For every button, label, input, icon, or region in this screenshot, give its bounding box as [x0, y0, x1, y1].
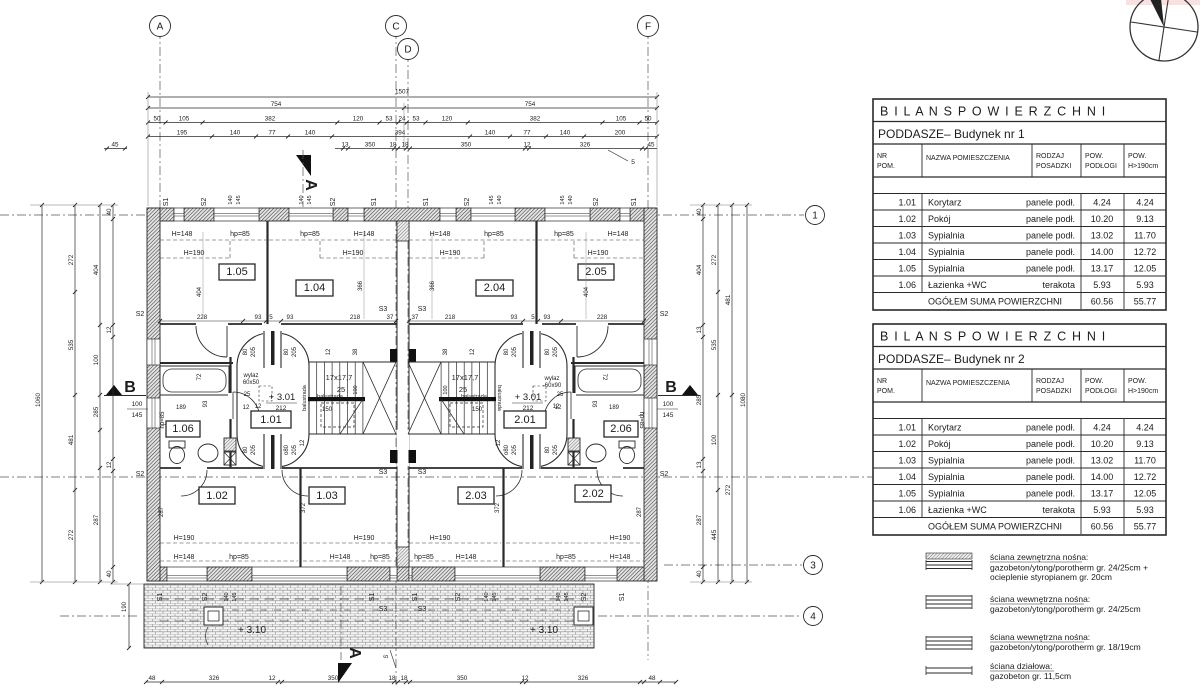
dimension row 45 stub left [104, 148, 127, 150]
svg-text:100: 100 [93, 354, 100, 365]
svg-text:285: 285 [696, 394, 703, 405]
svg-text:150: 150 [472, 407, 483, 413]
svg-text:140: 140 [224, 592, 230, 601]
table row 1.02 [873, 451, 1166, 453]
svg-text:18: 18 [400, 675, 408, 682]
right dim chain 481 [731, 205, 733, 582]
svg-text:gazobeton/ytong/porotherm gr.: gazobeton/ytong/porotherm gr. 18/19cm [990, 642, 1141, 652]
svg-text:5.93: 5.93 [1093, 280, 1111, 290]
svg-text:PODŁOGI: PODŁOGI [1085, 163, 1117, 170]
svg-text:A: A [346, 647, 363, 659]
svg-text:535: 535 [711, 339, 718, 350]
svg-text:2.06: 2.06 [610, 423, 631, 435]
svg-text:1.05: 1.05 [898, 489, 916, 499]
svg-text:panele podł.: panele podł. [1026, 472, 1075, 482]
scan artifact [1126, 0, 1200, 5]
window W9 bottom left [167, 567, 207, 581]
svg-text:100: 100 [663, 401, 674, 408]
svg-text:H>190cm: H>190cm [1128, 163, 1158, 170]
svg-text:H=148: H=148 [456, 554, 477, 561]
outer wall left band [147, 208, 160, 581]
outer wall right band [644, 208, 657, 581]
svg-text:13.02: 13.02 [1091, 231, 1114, 241]
svg-text:H=148: H=148 [330, 554, 351, 561]
svg-text:hp=85: hp=85 [414, 554, 434, 561]
svg-text:H=148: H=148 [172, 231, 193, 238]
duct shaft 2.06 [568, 438, 580, 451]
svg-text:105: 105 [179, 115, 190, 122]
attic line H190 room 2.02 [506, 542, 644, 544]
svg-text:10.20: 10.20 [1091, 439, 1114, 449]
outer wall top band [147, 208, 174, 221]
svg-text:140: 140 [560, 129, 571, 136]
attic line H190 room 2.03 [409, 542, 501, 544]
svg-text:80: 80 [284, 348, 290, 355]
window W12 bottom right patio [455, 567, 540, 581]
interior dim row y318 right [409, 320, 644, 322]
svg-text:48: 48 [648, 675, 656, 682]
svg-text:S2: S2 [581, 593, 588, 602]
room 1.01 label [251, 411, 291, 428]
svg-text:NR: NR [877, 378, 887, 385]
svg-text:NAZWA POMIESZCZENIA: NAZWA POMIESZCZENIA [926, 155, 1010, 162]
svg-text:481: 481 [68, 434, 75, 445]
svg-text:1.05: 1.05 [898, 264, 916, 274]
svg-text:hp=85: hp=85 [554, 231, 574, 238]
svg-text:NAZWA POMIESZCZENIA: NAZWA POMIESZCZENIA [926, 380, 1010, 387]
svg-text:80: 80 [243, 348, 249, 355]
table row 1.02 [873, 226, 1166, 228]
right dim chain 272-535 [717, 205, 719, 582]
room 2.03 label [458, 487, 494, 504]
svg-text:18: 18 [401, 141, 409, 148]
grid line 4 [60, 615, 140, 617]
attic line H148 room 1.04 [269, 239, 396, 241]
attic line H190 room 1.05 [160, 257, 230, 259]
svg-text:190: 190 [122, 601, 128, 612]
svg-text:150: 150 [322, 407, 333, 413]
svg-text:12: 12 [300, 439, 306, 446]
svg-text:2.01: 2.01 [514, 414, 535, 426]
svg-text:80: 80 [545, 446, 551, 453]
svg-text:POW.: POW. [1128, 153, 1146, 160]
svg-text:12: 12 [243, 405, 250, 411]
window W11 right wall [644, 339, 657, 365]
svg-text:balustrada: balustrada [461, 394, 488, 400]
svg-text:S1: S1 [619, 593, 626, 602]
svg-text:S3: S3 [379, 606, 388, 613]
svg-text:350: 350 [328, 675, 339, 682]
svg-text:RODZAJ: RODZAJ [1036, 153, 1064, 160]
bathroom 1.06 inner door arc [233, 392, 260, 419]
svg-text:ściana działowa:: ściana działowa: [990, 661, 1052, 671]
svg-text:72: 72 [197, 373, 203, 380]
svg-text:hp=85: hp=85 [230, 231, 250, 238]
terrace post right [574, 607, 593, 625]
svg-text:Łazienka +WC: Łazienka +WC [928, 280, 987, 290]
svg-text:37: 37 [387, 314, 394, 321]
terrace door arc left [206, 627, 208, 645]
svg-text:1.06: 1.06 [172, 423, 193, 435]
table row 1.01 [873, 434, 1166, 436]
svg-text:panele podł.: panele podł. [1026, 231, 1075, 241]
svg-text:100: 100 [132, 401, 143, 408]
svg-text:1.06: 1.06 [898, 505, 916, 515]
svg-text:Łazienka +WC: Łazienka +WC [928, 505, 987, 515]
table row 1.06 [873, 517, 1166, 519]
svg-text:145: 145 [132, 412, 143, 419]
svg-text:Pokój: Pokój [928, 214, 951, 224]
grid line 2 axis [0, 476, 872, 478]
svg-text:140: 140 [484, 592, 490, 601]
table row 1.01 [873, 209, 1166, 211]
svg-text:Korytarz: Korytarz [928, 423, 962, 433]
corridor 1.01 bottom door slot [263, 465, 282, 470]
grid bubble C [386, 16, 407, 37]
washbasin 1.06 [198, 444, 218, 462]
svg-text:1.06: 1.06 [898, 280, 916, 290]
svg-text:1.04: 1.04 [898, 472, 916, 482]
window W5 top right [440, 208, 456, 221]
left dim chain 1060 [41, 205, 43, 582]
svg-text:145: 145 [489, 195, 495, 204]
svg-text:1.02: 1.02 [206, 490, 227, 502]
svg-text:gazobeton/ytong/porotherm gr.: gazobeton/ytong/porotherm gr. 24/25cm + [990, 563, 1148, 573]
svg-text:53: 53 [412, 115, 420, 122]
svg-text:12: 12 [255, 404, 262, 410]
svg-text:ściana wewnętrzna nośna:: ściana wewnętrzna nośna: [990, 594, 1090, 604]
svg-text:13: 13 [696, 326, 703, 334]
stairs right hatch box dashed [450, 403, 483, 427]
dimension row 45-350 [335, 148, 657, 150]
svg-text:12: 12 [268, 675, 276, 682]
svg-text:754: 754 [525, 101, 536, 108]
svg-text:60.56: 60.56 [1091, 522, 1114, 532]
table row 1.04 [873, 484, 1166, 486]
attic line H190 room 2.05 [574, 257, 644, 259]
room 2.06 label [604, 421, 638, 437]
stairs right rail bar [439, 397, 496, 401]
toilet 2.06 [620, 447, 635, 464]
svg-text:S1: S1 [157, 593, 164, 602]
svg-text:4: 4 [810, 611, 816, 622]
svg-text:1.01: 1.01 [260, 414, 281, 426]
svg-text:terakota: terakota [1042, 280, 1075, 290]
svg-text:+ 3.01: + 3.01 [515, 392, 542, 403]
svg-text:Korytarz: Korytarz [928, 198, 962, 208]
svg-text:205: 205 [251, 444, 257, 455]
left dim chain 272-481-272 [74, 205, 76, 582]
attic line H190 room 1.03 [303, 542, 396, 544]
svg-text:Sypialnia: Sypialnia [928, 489, 965, 499]
svg-text:382: 382 [265, 115, 276, 122]
svg-text:S3: S3 [379, 306, 388, 313]
interior wall lower horizontal left [160, 467, 181, 469]
wall between rooms 2.04 and 2.05 [535, 221, 537, 324]
duct shaft 1.06 [224, 438, 236, 451]
wall between rooms 1.05 and 1.04 [266, 221, 268, 324]
svg-text:H=190: H=190 [354, 535, 375, 542]
bottom dimension row [146, 681, 676, 683]
svg-text:5: 5 [631, 159, 635, 166]
attic line H148 room 2.03 [409, 560, 501, 562]
svg-text:145: 145 [560, 195, 566, 204]
svg-text:1.04: 1.04 [898, 247, 916, 257]
room 1.05 label [219, 264, 255, 280]
table subtitle row [873, 143, 1166, 145]
svg-text:hp=85: hp=85 [300, 231, 320, 238]
svg-text:S2: S2 [593, 198, 600, 207]
svg-text:228: 228 [597, 314, 608, 321]
room 1.03 label [309, 487, 345, 504]
svg-text:60.56: 60.56 [1091, 297, 1114, 307]
svg-text:POSADZKI: POSADZKI [1036, 388, 1071, 395]
svg-text:S2: S2 [464, 198, 471, 207]
svg-text:S2: S2 [660, 471, 669, 478]
svg-text:S3: S3 [418, 306, 427, 313]
svg-text:terakota: terakota [1042, 505, 1075, 515]
window W13 bottom right [585, 567, 617, 581]
svg-text:12: 12 [555, 405, 562, 411]
wall between rooms 1.02 and 1.03 [299, 468, 301, 567]
svg-text:+ 3.10: + 3.10 [530, 625, 559, 636]
svg-text:S2: S2 [202, 593, 209, 602]
extension lines top [147, 92, 149, 206]
svg-text:gazobeton/ytong/porotherm gr.: gazobeton/ytong/porotherm gr. 24/25cm [990, 604, 1141, 614]
svg-text:H>190cm: H>190cm [1128, 388, 1158, 395]
svg-text:+ 3.10: + 3.10 [238, 625, 267, 636]
svg-text:Sypialnia: Sypialnia [928, 264, 965, 274]
table header row [873, 401, 1166, 403]
table row 1.03 [873, 242, 1166, 244]
table BILANS POWIERZCHNI building 2 [873, 324, 1166, 535]
svg-text:326: 326 [209, 675, 220, 682]
terrace dim 190 [128, 584, 130, 648]
svg-text:POM.: POM. [877, 388, 895, 395]
svg-text:12.72: 12.72 [1134, 247, 1157, 257]
svg-text:535: 535 [68, 339, 75, 350]
svg-text:140: 140 [485, 129, 496, 136]
svg-text:272: 272 [68, 529, 75, 540]
svg-text:93: 93 [203, 400, 209, 407]
svg-text:25: 25 [557, 392, 564, 398]
svg-text:25: 25 [337, 385, 345, 394]
svg-text:145: 145 [564, 592, 570, 601]
svg-text:PODDASZE– Budynek nr 1: PODDASZE– Budynek nr 1 [878, 127, 1025, 141]
svg-text:A: A [302, 179, 319, 191]
window W11 bottom center [390, 567, 397, 581]
svg-text:13.17: 13.17 [1091, 489, 1114, 499]
svg-text:hp=85: hp=85 [229, 554, 249, 561]
svg-text:72: 72 [601, 374, 607, 381]
svg-text:1.03: 1.03 [898, 231, 916, 241]
window W1 top left [174, 208, 184, 221]
svg-text:OGÓŁEM SUMA POWIERZCHNI: OGÓŁEM SUMA POWIERZCHNI [928, 522, 1062, 532]
svg-text:1080: 1080 [740, 393, 747, 408]
bathroom 2.06 door arc [577, 326, 608, 357]
left dim chain 40-12 [112, 205, 114, 582]
svg-text:18: 18 [389, 141, 397, 148]
svg-text:140: 140 [305, 129, 316, 136]
svg-text:S3: S3 [418, 606, 427, 613]
svg-text:4.24: 4.24 [1136, 198, 1154, 208]
svg-text:754: 754 [271, 101, 282, 108]
svg-text:S3: S3 [418, 469, 427, 476]
right dim chain 1080 [746, 205, 748, 582]
svg-text:205: 205 [292, 346, 298, 357]
svg-text:50: 50 [153, 115, 161, 122]
svg-text:285: 285 [93, 406, 100, 417]
svg-text:panele podł.: panele podł. [1026, 264, 1075, 274]
terrace outline [144, 584, 594, 648]
svg-text:404: 404 [93, 264, 100, 275]
svg-text:9.13: 9.13 [1136, 214, 1154, 224]
svg-text:17x17,7: 17x17,7 [326, 373, 353, 382]
svg-text:10.20: 10.20 [1091, 214, 1114, 224]
svg-text:55.77: 55.77 [1134, 297, 1157, 307]
table subtitle row [873, 368, 1166, 370]
table gap band [873, 193, 1166, 195]
svg-text:382: 382 [530, 115, 541, 122]
svg-text:POW.: POW. [1085, 378, 1103, 385]
dimension row 1507 [148, 96, 657, 98]
svg-text:H=190: H=190 [588, 250, 609, 257]
svg-text:272: 272 [711, 254, 718, 265]
svg-text:37: 37 [412, 314, 419, 321]
svg-text:120: 120 [353, 115, 364, 122]
svg-text:93: 93 [544, 314, 551, 321]
room 2.01 label [504, 411, 546, 428]
svg-text:4.24: 4.24 [1093, 423, 1111, 433]
svg-text:140: 140 [230, 129, 241, 136]
svg-text:ocieplenie styropianem gr. 20c: ocieplenie styropianem gr. 20cm [990, 572, 1112, 582]
svg-text:1060: 1060 [35, 393, 42, 408]
bathroom 2.06 inner door arc [544, 392, 571, 419]
svg-text:POM.: POM. [877, 163, 895, 170]
svg-text:hp=85: hp=85 [370, 554, 390, 561]
svg-text:80: 80 [243, 446, 249, 453]
svg-text:OGÓŁEM SUMA POWIERZCHNI: OGÓŁEM SUMA POWIERZCHNI [928, 297, 1062, 307]
svg-text:404: 404 [696, 264, 703, 275]
svg-text:25: 25 [459, 385, 467, 394]
legend item exterior wall [926, 553, 972, 559]
attic line H148 room 1.05 [160, 239, 266, 241]
window W8 top right [620, 208, 630, 221]
svg-text:Sypialnia: Sypialnia [928, 247, 965, 257]
room 1.04 label [296, 280, 333, 296]
svg-text:366: 366 [430, 280, 436, 291]
svg-text:hp=85: hp=85 [484, 231, 504, 238]
section marker A bottom [338, 663, 352, 683]
window W2 top left [214, 208, 259, 221]
svg-text:1.01: 1.01 [898, 423, 916, 433]
svg-text:12: 12 [106, 326, 113, 334]
svg-text:5.93: 5.93 [1093, 505, 1111, 515]
svg-text:+ 3.01: + 3.01 [269, 392, 296, 403]
stairs left rail bar [308, 397, 365, 401]
svg-text:145: 145 [236, 195, 242, 204]
svg-text:25: 25 [244, 392, 251, 398]
svg-text:S1: S1 [631, 198, 638, 207]
svg-text:38: 38 [353, 348, 359, 355]
svg-text:4.24: 4.24 [1093, 198, 1111, 208]
table gap band [873, 418, 1166, 420]
svg-text:wylaz: wylaz [242, 373, 258, 379]
svg-text:350: 350 [365, 141, 376, 148]
svg-text:S2: S2 [136, 311, 145, 318]
svg-text:S1: S1 [369, 593, 376, 602]
svg-text:1.03: 1.03 [316, 490, 337, 502]
svg-text:12: 12 [521, 675, 529, 682]
window W12 right wall [644, 398, 657, 428]
svg-text:38: 38 [443, 348, 449, 355]
svg-text:S1: S1 [371, 198, 378, 207]
svg-text:H=190: H=190 [610, 535, 631, 542]
svg-text:wylaz: wylaz [543, 376, 559, 382]
svg-text:panele podł.: panele podł. [1026, 247, 1075, 257]
window W6 top right [471, 208, 515, 221]
svg-text:195: 195 [177, 129, 188, 136]
attic line H148 room 1.02 [160, 560, 298, 562]
bathroom 1.06 top wall [160, 362, 233, 364]
svg-text:1.01: 1.01 [898, 198, 916, 208]
window W10 bottom left patio [252, 567, 347, 581]
svg-text:404: 404 [584, 286, 590, 297]
svg-text:9.13: 9.13 [1136, 439, 1154, 449]
corridor 2.01 outline [495, 333, 567, 467]
svg-text:4.24: 4.24 [1136, 423, 1154, 433]
door arc room 2.03 [496, 470, 522, 496]
center wall pier blocks [390, 349, 398, 362]
room 1.06 label [166, 421, 200, 437]
interior wall mid horizontal left [160, 323, 196, 325]
svg-text:Sypialnia: Sypialnia [928, 456, 965, 466]
svg-text:100: 100 [711, 434, 718, 445]
svg-text:NR: NR [877, 153, 887, 160]
door arc room 1.03 [282, 470, 308, 496]
svg-text:12: 12 [470, 348, 476, 355]
bathroom 2.06 wall [572, 357, 574, 468]
attic line H190 room 1.04 [320, 257, 396, 259]
svg-text:17x17,7: 17x17,7 [452, 373, 479, 382]
svg-text:60x50: 60x50 [243, 380, 260, 386]
svg-text:o80: o80 [504, 444, 510, 455]
svg-text:93: 93 [593, 400, 599, 407]
svg-text:14.00: 14.00 [1091, 247, 1114, 257]
svg-text:panele podł.: panele podł. [1026, 214, 1075, 224]
svg-text:326: 326 [578, 675, 589, 682]
grid bubble 4 [804, 607, 823, 626]
grid line 3 [664, 564, 802, 566]
svg-text:gazobeton gr. 11,5cm: gazobeton gr. 11,5cm [990, 671, 1071, 681]
svg-text:5: 5 [269, 314, 273, 321]
svg-text:hp=85: hp=85 [638, 412, 644, 430]
bathroom 2.06 top wall [571, 362, 644, 364]
interior wall lower horizontal right [409, 467, 522, 469]
svg-text:80: 80 [504, 348, 510, 355]
svg-text:H=190: H=190 [440, 250, 461, 257]
svg-text:H=148: H=148 [608, 231, 629, 238]
right dim chain 40-404 [702, 205, 704, 582]
svg-text:Pokój: Pokój [928, 439, 951, 449]
toilet 1.06 [170, 447, 185, 464]
svg-text:140: 140 [228, 195, 234, 204]
grid line A [159, 30, 161, 580]
section marker A top [296, 155, 311, 176]
svg-text:1.04: 1.04 [304, 282, 325, 294]
svg-text:287: 287 [93, 514, 100, 525]
svg-text:5: 5 [531, 314, 535, 321]
